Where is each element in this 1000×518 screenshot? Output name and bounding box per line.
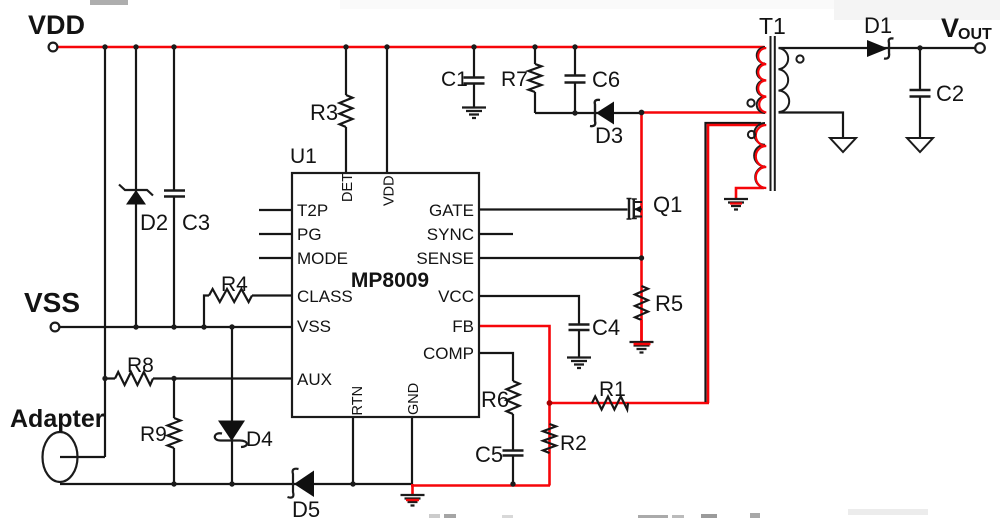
wire snubber bottom through D3 (535, 112, 641, 114)
junction dots on VSS rail (133, 324, 234, 329)
wire C2 lead (919, 48, 921, 138)
resistor R6 (507, 381, 520, 414)
ground triangle at C2 (907, 138, 933, 152)
resistor R1 (592, 397, 628, 410)
wire D2 branch vertical (135, 47, 137, 327)
svg-text:AUX: AUX (297, 370, 332, 389)
svg-text:D3: D3 (595, 123, 623, 148)
wire C1 lead (473, 47, 475, 107)
schottky diode D4 (215, 421, 247, 448)
transistor Q1 NMOS (627, 199, 643, 220)
artifact top-left gray dash (90, 0, 128, 5)
svg-text:D1: D1 (864, 13, 892, 38)
wire aux bottom to ground (red) (736, 188, 764, 200)
junction dots on AUX line (102, 376, 176, 381)
svg-text:C4: C4 (592, 315, 620, 340)
op-amp U1 IC body MP8009 (292, 173, 479, 417)
wire secondary top to VOUT (779, 47, 976, 49)
T1 secondary phase dot (796, 55, 803, 62)
ground at C4 (567, 358, 591, 369)
wire R1 line (red) (550, 402, 710, 405)
wire R9 leads (173, 379, 175, 485)
wire RTN pin lead (352, 417, 354, 484)
svg-text:R7: R7 (501, 68, 528, 91)
wire Q1 drain-source vertical (red) (640, 113, 643, 344)
resistor R4 (209, 289, 252, 302)
svg-text:C2: C2 (936, 81, 964, 106)
svg-text:D2: D2 (140, 210, 168, 235)
T1 aux phase dot (748, 131, 755, 138)
svg-text:T1: T1 (759, 13, 786, 39)
transformer T1 secondary winding (779, 48, 790, 112)
svg-text:VDD: VDD (382, 175, 398, 206)
capacitor C2 (910, 90, 931, 97)
wire bottom red GND to R2 (411, 484, 550, 487)
transformer T1 primary winding (black under) (757, 47, 765, 113)
capacitor C3 (164, 191, 185, 197)
wire adapter stub (60, 456, 105, 458)
resistor R5 (635, 286, 648, 320)
wire D4 branch vertical (231, 327, 233, 484)
wire bottom return rail (60, 483, 413, 485)
ground triangle at T1 secondary (830, 138, 856, 152)
resistor R9 (168, 418, 181, 448)
junction dot FB/R1/R2 node (547, 400, 553, 406)
junction dots on bottom rail (171, 481, 515, 486)
transformer T1 aux winding (black under) (754, 123, 765, 188)
svg-text:R9: R9 (140, 423, 167, 446)
svg-text:U1: U1 (290, 145, 317, 168)
wire R2 line (red) (548, 403, 551, 486)
svg-text:R1: R1 (599, 378, 626, 401)
ground at C1 (462, 108, 486, 119)
schottky diode D3 (590, 100, 614, 126)
wire DET/R3 lead (345, 47, 347, 173)
wire PG stub (259, 233, 292, 235)
resistor R2 (543, 424, 556, 453)
svg-text:Adapter: Adapter (10, 405, 105, 433)
wire aux red vertical (708, 125, 764, 403)
svg-text:DET: DET (340, 173, 356, 202)
svg-text:OUT: OUT (958, 26, 992, 43)
svg-text:RTN: RTN (350, 386, 366, 416)
svg-text:C5: C5 (475, 442, 503, 467)
svg-text:VSS: VSS (24, 287, 80, 318)
svg-text:GND: GND (406, 383, 422, 415)
schottky diode D5 (288, 469, 315, 498)
svg-text:R5: R5 (655, 291, 683, 316)
wire VDD pin lead (386, 47, 388, 173)
zener diode D2 (119, 185, 153, 205)
wire SENSE to Q1 source (479, 257, 642, 259)
wire adapter feed vertical x=105 (104, 47, 106, 457)
artifact top-right light band (340, 0, 840, 9)
svg-text:V: V (941, 13, 959, 43)
wire C3 branch vertical (173, 47, 175, 327)
schottky diode D1 (867, 38, 894, 58)
transformer T1 primary winding (red) (758, 48, 766, 113)
svg-text:D4: D4 (246, 428, 273, 451)
svg-text:VDD: VDD (28, 10, 85, 40)
resistor R7 (529, 64, 542, 92)
svg-text:R3: R3 (310, 100, 338, 125)
svg-text:SYNC: SYNC (427, 225, 474, 244)
capacitor C4 (569, 325, 590, 331)
svg-text:R4: R4 (221, 273, 248, 296)
svg-text:VSS: VSS (297, 317, 331, 336)
ground at T1 aux (red stem) (724, 199, 748, 210)
junction dots on VDD rail (102, 44, 577, 49)
wire T2P stub (259, 209, 292, 211)
ground at GND pin (red stem) (401, 484, 425, 506)
svg-text:VCC: VCC (438, 287, 474, 306)
svg-text:D5: D5 (292, 497, 320, 518)
wire C6 lead (574, 47, 576, 113)
wire secondary bottom (779, 113, 844, 139)
terminal VDD (49, 43, 58, 52)
svg-text:C6: C6 (592, 67, 620, 92)
junction dots snubber / D3 node (572, 110, 644, 116)
svg-text:MODE: MODE (297, 249, 348, 268)
svg-text:FB: FB (452, 317, 474, 336)
wire GATE to Q1 (479, 208, 628, 210)
svg-text:PG: PG (297, 225, 322, 244)
junction dot at C2 top (917, 45, 922, 50)
svg-text:Q1: Q1 (653, 192, 682, 217)
svg-text:CLASS: CLASS (297, 287, 353, 306)
resistor R8 (115, 372, 153, 385)
svg-text:GATE: GATE (429, 201, 474, 220)
wire COMP to R6/C5 (479, 353, 513, 484)
svg-text:C3: C3 (182, 210, 210, 235)
wire R4 leads (204, 296, 292, 328)
terminal VOUT (975, 43, 985, 53)
svg-text:R6: R6 (481, 387, 509, 412)
svg-text:COMP: COMP (423, 344, 474, 363)
Adapter barrel symbol (43, 432, 78, 482)
transformer T1 aux winding (red) (756, 125, 767, 188)
svg-text:C1: C1 (441, 68, 468, 91)
capacitor C1 (464, 78, 485, 84)
wire GND pin lead (411, 417, 413, 484)
resistor R3 (340, 95, 353, 127)
svg-text:T2P: T2P (297, 201, 328, 220)
capacitor C6 (565, 76, 586, 83)
wire VSS rail (59, 326, 292, 328)
wire D3 node to primary (red) (642, 111, 764, 114)
svg-text:R2: R2 (560, 432, 587, 455)
wire VCC to C4 (479, 296, 579, 357)
junction dot SENSE (639, 255, 644, 260)
wire aux black shadow (706, 123, 762, 402)
svg-text:SENSE: SENSE (416, 249, 474, 268)
terminal VSS (51, 323, 60, 332)
wire FB feedback (red) (479, 326, 550, 403)
ground at R5 source (red stem) (630, 320, 654, 353)
wire MODE stub (259, 257, 292, 259)
capacitor C5 (503, 451, 524, 456)
wire VDD rail (red, VDD terminal to T1 primary top) (56, 46, 765, 49)
svg-text:MP8009: MP8009 (351, 269, 429, 292)
wire SYNC stub (479, 233, 513, 235)
transformer T1 core (771, 36, 775, 191)
wire R7 leads (534, 47, 536, 113)
svg-text:R8: R8 (127, 354, 154, 377)
T1 primary phase dot (747, 99, 754, 106)
artifact faint caption remnants bottom (429, 509, 928, 518)
wire R8/AUX line (105, 377, 292, 379)
